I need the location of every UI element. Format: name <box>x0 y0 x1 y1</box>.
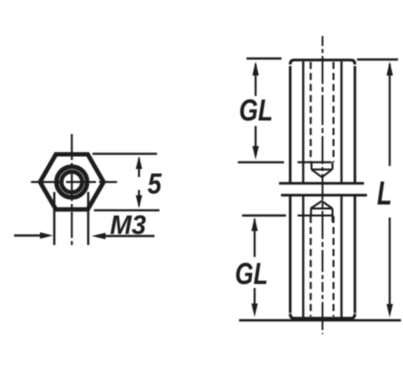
svg-text:5: 5 <box>148 169 163 201</box>
svg-text:GL: GL <box>235 256 268 291</box>
thread dashed line right upper <box>333 62 335 162</box>
body right edge upper section <box>354 66 357 184</box>
body top edge with chamfered corners <box>290 60 355 65</box>
hex corner line right upper <box>340 62 342 184</box>
hexagon vertical centerline <box>71 134 73 245</box>
bottom drill cone <box>311 201 333 208</box>
GL bottom extension line <box>242 214 286 216</box>
dimension S upper arrow <box>136 156 142 177</box>
top extension line right segment <box>357 58 398 60</box>
body right edge lower section <box>354 195 357 313</box>
svg-text:GL: GL <box>239 93 273 128</box>
hole inner circle <box>61 172 82 193</box>
dimension S bottom extension line <box>94 209 160 211</box>
body left edge upper section <box>289 66 292 184</box>
L dimension arrow up <box>387 62 393 167</box>
break line lower <box>281 194 367 197</box>
thread dashed line right lower <box>333 216 335 317</box>
M3 extension line right <box>87 192 89 245</box>
thread dashed line left lower <box>310 216 312 317</box>
GL top extension line <box>238 161 284 163</box>
GL top dimension arrow down <box>252 126 258 160</box>
dimension S lower arrow <box>136 190 142 208</box>
bottom extension line <box>239 319 401 321</box>
body left edge lower section <box>289 195 292 313</box>
GL top dimension arrow up <box>252 62 258 97</box>
L dimension arrow down <box>387 218 393 318</box>
bottom thread minor stubs <box>311 209 333 223</box>
thread outer circle <box>57 167 88 198</box>
hex corner line left upper <box>302 62 304 184</box>
hexagon outline <box>40 154 104 209</box>
bottom thread depth line <box>298 215 334 217</box>
M3 leader arrow left <box>14 232 53 239</box>
svg-text:M3: M3 <box>110 210 146 240</box>
GL bottom dimension arrow down <box>251 288 257 317</box>
M3 extension line left <box>53 192 55 245</box>
dimension S top extension line <box>93 153 158 155</box>
top extension line left segment <box>247 57 282 59</box>
thread dashed line left upper <box>310 62 312 162</box>
break line upper <box>279 182 364 185</box>
hexagon horizontal centerline <box>31 181 117 183</box>
body centerline <box>322 36 324 334</box>
GL bottom dimension arrow up <box>251 217 257 257</box>
top drill cone <box>312 170 333 178</box>
M3 leader arrow right <box>92 233 155 240</box>
top thread depth line <box>298 161 332 163</box>
svg-text:L: L <box>377 175 392 212</box>
hex corner line left lower <box>302 195 304 317</box>
top thread minor stubs <box>312 162 333 169</box>
hex corner line right lower <box>340 195 342 317</box>
body bottom edge with chamfered corners <box>290 314 355 319</box>
